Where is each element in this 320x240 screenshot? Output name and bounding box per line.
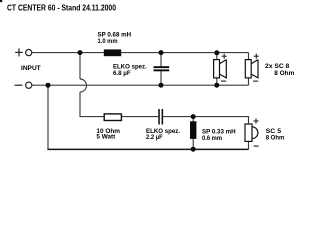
wire: speaker2 top drop xyxy=(248,53,250,60)
wire: minus mid rail xyxy=(32,84,249,86)
wire: speaker2 bottom rise xyxy=(248,78,250,85)
speaker SP2 (SC 8 right) xyxy=(245,60,258,78)
svg-text:8 Ohm: 8 Ohm xyxy=(266,134,285,141)
capacitor C2 ELKO 2.2 uF plates (vertical) xyxy=(158,109,160,125)
svg-text:1.0 mm: 1.0 mm xyxy=(98,38,118,45)
scan artifact top-left corner xyxy=(0,0,2,2)
svg-text:5 Watt: 5 Watt xyxy=(96,134,115,141)
junction dot L2 top xyxy=(191,114,196,119)
inductor L1 SP 0.68 mH (filled) xyxy=(104,49,121,56)
wire: shunt inductor L2 stubs xyxy=(192,117,194,122)
inductor L2 SP 0.33 mH (filled vertical) xyxy=(190,121,196,139)
minus sign speaker2 xyxy=(253,80,258,82)
junction dot minus rail left xyxy=(46,83,51,88)
wire: hop over minus rail xyxy=(80,79,87,92)
svg-text:0.6 mm: 0.6 mm xyxy=(202,135,222,142)
capacitor C1 ELKO 6.8 uF plates xyxy=(154,66,170,68)
wire: lower branch right of C2 to SC5 xyxy=(163,117,248,124)
svg-text:2.2 µF: 2.2 µF xyxy=(146,134,163,141)
wire: capacitor C1 top stub xyxy=(160,53,162,67)
junction dot C1 bottom xyxy=(159,83,164,88)
wire: SC5 bottom stub xyxy=(248,141,250,149)
svg-text:INPUT: INPUT xyxy=(21,65,41,72)
wire: bottom rail xyxy=(47,148,248,150)
wire: speaker1 bottom stub xyxy=(216,78,218,85)
junction dot speaker1 top xyxy=(214,50,219,55)
junction dot C1 top xyxy=(159,50,164,55)
plus sign speaker1 xyxy=(222,54,227,59)
resistor R1 10 Ohm (outline) xyxy=(104,114,121,121)
input plus terminal xyxy=(15,48,32,56)
wire: speaker1 top stub xyxy=(216,53,218,60)
wire: top rail from input+ to speaker2 xyxy=(32,52,249,54)
node A junction dot xyxy=(78,50,83,55)
svg-text:6.8 µF: 6.8 µF xyxy=(113,70,131,77)
wire: vertical continuation to lower branch xyxy=(80,92,158,117)
wire: left drop from minus rail to bottom rail xyxy=(47,85,49,149)
svg-text:8 Ohm: 8 Ohm xyxy=(274,70,295,77)
minus sign speaker1 xyxy=(221,80,226,82)
svg-text:2x SC 8: 2x SC 8 xyxy=(265,63,290,70)
wire: capacitor C1 bottom stub xyxy=(160,71,162,85)
plus sign SC5 xyxy=(254,119,259,124)
speaker SC5 (dome) xyxy=(245,124,258,141)
junction dot L2 bottom xyxy=(191,147,196,152)
speaker SP1 (SC 8 left) xyxy=(214,60,227,78)
svg-text:CT CENTER 60 - Stand 24.11.200: CT CENTER 60 - Stand 24.11.2000 xyxy=(7,4,116,13)
plus sign speaker2 xyxy=(254,54,259,59)
junction dot speaker1 bottom xyxy=(214,83,219,88)
input minus terminal xyxy=(15,82,32,88)
wire: node A vertical drop from top rail xyxy=(79,53,81,79)
minus sign SC5 xyxy=(254,145,259,147)
